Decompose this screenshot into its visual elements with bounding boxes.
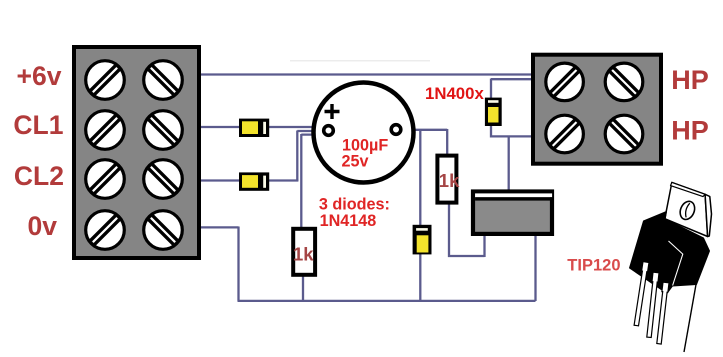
svg-text:25v: 25v — [342, 153, 369, 171]
svg-text:0v: 0v — [28, 211, 58, 241]
svg-text:1k: 1k — [439, 170, 460, 191]
svg-text:CL2: CL2 — [14, 161, 64, 191]
svg-text:TIP120: TIP120 — [567, 257, 620, 275]
svg-text:3 diodes:: 3 diodes: — [319, 196, 390, 214]
svg-text:1N4148: 1N4148 — [320, 212, 377, 230]
svg-text:HP: HP — [671, 65, 709, 95]
svg-text:1k: 1k — [293, 244, 314, 265]
svg-text:+6v: +6v — [17, 61, 62, 91]
svg-text:HP: HP — [671, 115, 709, 145]
svg-text:1N400x: 1N400x — [425, 84, 484, 103]
svg-text:CL1: CL1 — [13, 110, 63, 140]
